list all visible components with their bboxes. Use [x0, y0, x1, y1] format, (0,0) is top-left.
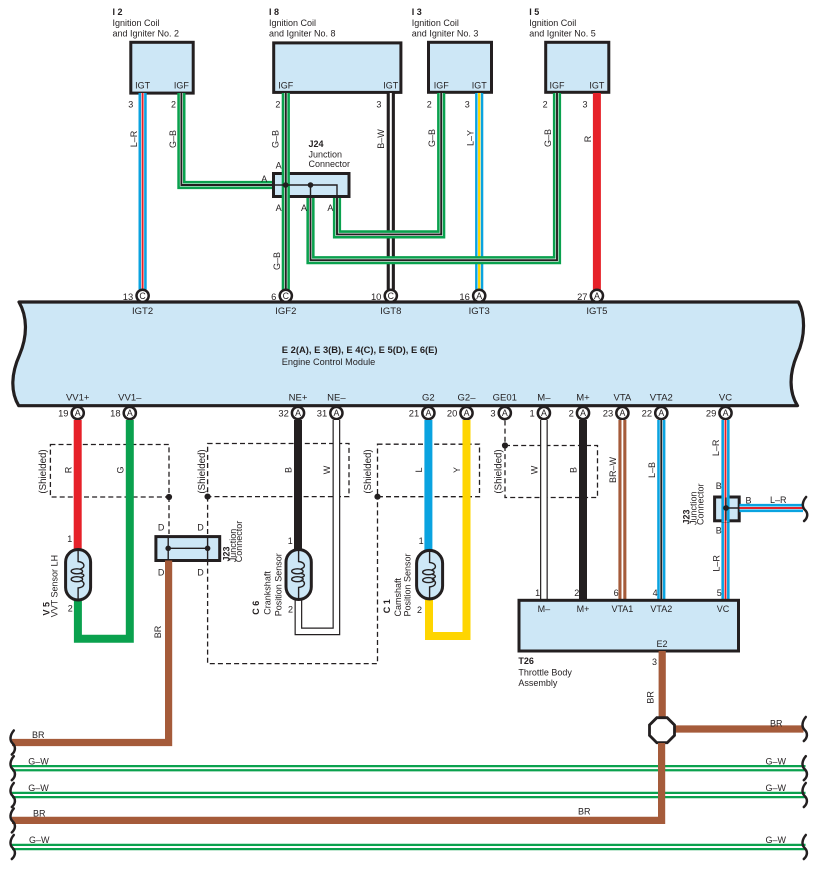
- svg-text:W: W: [530, 465, 540, 474]
- pin number 3 of I2 IGT: [128, 100, 139, 148]
- svg-text:VTA2: VTA2: [650, 604, 672, 614]
- node 32(A) NE+: [278, 407, 304, 419]
- svg-text:Position Sensor: Position Sensor: [403, 553, 413, 616]
- svg-text:3: 3: [652, 657, 657, 667]
- svg-text:IGT: IGT: [383, 81, 399, 91]
- svg-text:A: A: [476, 291, 482, 301]
- svg-text:IGT: IGT: [472, 81, 488, 91]
- svg-text:Connector: Connector: [309, 159, 351, 169]
- svg-text:and Igniter No. 3: and Igniter No. 3: [412, 29, 479, 39]
- svg-text:IGF2: IGF2: [275, 306, 296, 317]
- svg-text:13: 13: [123, 291, 133, 302]
- svg-text:G–B: G–B: [168, 130, 178, 148]
- svg-text:M+: M+: [577, 604, 590, 614]
- svg-text:A: A: [541, 408, 547, 418]
- svg-text:Ignition Coil: Ignition Coil: [412, 18, 459, 28]
- label BR right stub: [770, 718, 783, 728]
- svg-text:NE–: NE–: [327, 393, 346, 404]
- wire L: ECM G2 21 to C1 pin 1: [424, 420, 432, 550]
- node 3(A) GE01: [490, 407, 511, 419]
- svg-text:and Igniter No. 2: and Igniter No. 2: [113, 29, 180, 39]
- node 20(A) G2&#8211;: [447, 407, 473, 419]
- J23 internal dot: [682, 483, 787, 525]
- VVT sensor V5 (VVT Sensor LH): [42, 534, 91, 617]
- svg-text:VV1–: VV1–: [118, 393, 142, 404]
- svg-text:L–B: L–B: [647, 462, 657, 478]
- svg-text:VVT Sensor LH: VVT Sensor LH: [50, 555, 60, 617]
- wire W: ECM M- 1 to T26 pin 1: [540, 420, 548, 601]
- svg-text:B: B: [284, 467, 294, 473]
- ignition coil I3: [412, 7, 492, 92]
- svg-text:GE01: GE01: [493, 393, 517, 404]
- svg-text:Position Sensor: Position Sensor: [273, 553, 283, 616]
- throttle body assembly T26: [518, 588, 738, 688]
- svg-text:Junction: Junction: [309, 149, 343, 159]
- svg-text:19: 19: [58, 408, 68, 419]
- ECM top pin names: [132, 306, 607, 317]
- svg-text:E 2(A), E 3(B), E 4(C), E 5(D): E 2(A), E 3(B), E 4(C), E 5(D), E 6(E): [282, 344, 438, 355]
- labels G-W bus 3: [29, 835, 787, 845]
- node 6(C) IGF2: [271, 290, 292, 303]
- svg-text:(Shielded): (Shielded): [38, 449, 49, 493]
- svg-text:G: G: [116, 466, 126, 473]
- svg-text:IGT3: IGT3: [469, 306, 490, 317]
- svg-text:L–R: L–R: [711, 439, 721, 456]
- svg-text:Assembly: Assembly: [518, 678, 558, 688]
- svg-text:I 5: I 5: [529, 7, 539, 17]
- wire R: ECM VV1+ 19 to V5 pin 1: [74, 420, 82, 550]
- svg-text:1: 1: [535, 588, 540, 598]
- svg-text:G–W: G–W: [766, 835, 787, 845]
- label R: [63, 466, 73, 473]
- svg-text:29: 29: [706, 408, 716, 419]
- svg-text:Engine Control Module: Engine Control Module: [282, 357, 375, 367]
- svg-text:J24: J24: [309, 139, 324, 149]
- svg-text:G–W: G–W: [28, 783, 49, 793]
- svg-text:C: C: [283, 291, 290, 301]
- wire W: C6 pin 2 to ECM NE- 31: [298, 420, 336, 631]
- svg-text:D: D: [158, 523, 165, 533]
- svg-text:G2: G2: [422, 393, 435, 404]
- svg-text:L–R: L–R: [711, 555, 721, 572]
- svg-text:Throttle Body: Throttle Body: [518, 667, 572, 677]
- svg-text:A: A: [276, 203, 282, 213]
- label BR mid bus 2: [33, 807, 591, 819]
- wire B: ECM M+ 2 to T26 pin 2: [579, 420, 587, 601]
- wire G-W bus 1: [12, 765, 806, 771]
- ignition coil I5: [529, 7, 609, 92]
- svg-text:D: D: [158, 568, 165, 578]
- svg-text:G–W: G–W: [29, 835, 50, 845]
- svg-text:A: A: [619, 408, 625, 418]
- svg-text:BR–W: BR–W: [608, 457, 618, 484]
- svg-text:A: A: [502, 408, 508, 418]
- label L-R lower: [711, 525, 721, 571]
- svg-text:Camshaft: Camshaft: [393, 577, 403, 616]
- svg-text:5: 5: [717, 588, 722, 598]
- svg-text:6: 6: [614, 588, 619, 598]
- node 16(A) IGT3: [459, 290, 485, 303]
- svg-text:IGT5: IGT5: [586, 306, 607, 317]
- svg-text:A: A: [75, 408, 81, 418]
- pin number 3 of E2: [645, 657, 657, 704]
- node 1(A) M&#8211;: [529, 407, 550, 419]
- shield drain wire: GE01 to M shield: [504, 421, 506, 446]
- svg-text:A: A: [327, 203, 333, 213]
- svg-text:R: R: [583, 135, 593, 142]
- ignition coil I8: [269, 7, 401, 92]
- wire G-B: I2 IGF pin 2 to J24 pin A: [181, 93, 272, 185]
- svg-text:10: 10: [371, 291, 381, 302]
- svg-text:BR: BR: [33, 809, 46, 819]
- svg-text:A: A: [333, 408, 339, 418]
- svg-text:A: A: [261, 174, 267, 184]
- labels G-W bus 1: [28, 756, 786, 766]
- svg-text:27: 27: [577, 291, 587, 302]
- wire G: V5 pin 2 to ECM VV1- 18: [78, 420, 130, 639]
- svg-text:(Shielded): (Shielded): [363, 449, 374, 493]
- svg-text:L–R: L–R: [770, 495, 787, 505]
- svg-text:G2–: G2–: [458, 393, 477, 404]
- svg-text:IGF: IGF: [278, 81, 294, 91]
- ground splice junction node (octagon): [650, 718, 675, 743]
- svg-text:2: 2: [275, 100, 280, 110]
- svg-text:G–W: G–W: [766, 783, 787, 793]
- junction connector J23 (shield grounds): [156, 521, 244, 578]
- ignition coil I2: [113, 7, 194, 93]
- label BR-W: [608, 457, 618, 484]
- svg-text:and Igniter No. 8: and Igniter No. 8: [269, 29, 336, 39]
- svg-text:A: A: [295, 408, 301, 418]
- svg-text:Ignition Coil: Ignition Coil: [529, 18, 576, 28]
- svg-text:BR: BR: [578, 807, 591, 817]
- svg-text:VC: VC: [717, 604, 730, 614]
- svg-text:Ignition Coil: Ignition Coil: [269, 18, 316, 28]
- svg-text:2: 2: [574, 588, 579, 598]
- svg-text:2: 2: [417, 605, 422, 615]
- svg-text:2: 2: [569, 408, 574, 419]
- svg-text:IGF: IGF: [174, 81, 190, 91]
- svg-text:I 2: I 2: [113, 7, 123, 17]
- wire break tear at J23 stub: [803, 497, 807, 521]
- pin number 2 of I3 IGF: [427, 100, 437, 148]
- svg-text:VC: VC: [719, 393, 732, 404]
- pin number 2 of I8 IGF: [271, 100, 281, 149]
- label BR left bus 1: [32, 730, 45, 740]
- svg-text:3: 3: [465, 100, 470, 110]
- wire B: ECM NE+ 32 to C6 pin 1: [294, 420, 302, 550]
- svg-text:A: A: [594, 291, 600, 301]
- label B: [569, 467, 579, 473]
- svg-text:I 3: I 3: [412, 7, 422, 17]
- svg-text:BR: BR: [645, 691, 655, 704]
- svg-text:6: 6: [271, 291, 276, 302]
- svg-text:A: A: [658, 408, 664, 418]
- shield box around C1 wires (Shielded): [363, 444, 479, 500]
- svg-text:B: B: [716, 481, 722, 491]
- label G: [116, 466, 126, 473]
- pin number 2 of I5 IGF: [543, 100, 554, 148]
- node 13(C) IGT2: [123, 290, 149, 303]
- node 27(A) IGT5: [577, 290, 603, 303]
- svg-text:L: L: [414, 467, 424, 472]
- wire L-R inside J23: [721, 494, 729, 522]
- svg-text:1: 1: [529, 408, 534, 419]
- label Y: [452, 467, 462, 473]
- wire L-R: ECM VC 29 to J23: [721, 420, 729, 497]
- J24 internal bus and junction dots: [272, 182, 337, 198]
- wire break tears right edge: [802, 717, 806, 859]
- label BR vertical: [153, 625, 163, 638]
- svg-text:W: W: [322, 465, 332, 474]
- node 31(A) NE&#8211;: [317, 407, 343, 419]
- svg-text:B: B: [716, 525, 722, 535]
- wire Y: C1 pin 2 to ECM G2- 20: [429, 420, 467, 636]
- svg-text:E2: E2: [656, 639, 667, 649]
- label B: [284, 467, 294, 473]
- svg-text:BR: BR: [153, 625, 163, 638]
- svg-text:G–B: G–B: [271, 130, 281, 148]
- node 23(A) VTA: [603, 407, 629, 419]
- svg-text:4: 4: [653, 588, 658, 598]
- wire L-Y: I3 IGT pin 3 to ECM IGT3: [475, 93, 483, 290]
- svg-text:Y: Y: [452, 467, 462, 473]
- pin number 3 of I5 IGT: [582, 100, 593, 143]
- svg-text:L–Y: L–Y: [466, 130, 476, 146]
- svg-text:1: 1: [67, 534, 72, 544]
- svg-text:A: A: [464, 408, 470, 418]
- junction connector J24: [274, 139, 351, 197]
- wire G-B: I3 IGF pin 2 to J24 pin A: [337, 93, 441, 234]
- svg-text:G–B: G–B: [543, 129, 553, 147]
- svg-text:21: 21: [409, 408, 419, 419]
- svg-text:A: A: [723, 408, 729, 418]
- svg-text:VTA1: VTA1: [611, 604, 633, 614]
- svg-text:IGT2: IGT2: [132, 306, 153, 317]
- svg-text:A: A: [301, 203, 307, 213]
- svg-text:BR: BR: [770, 718, 783, 728]
- svg-text:C: C: [388, 291, 395, 301]
- svg-text:G–W: G–W: [766, 756, 787, 766]
- svg-text:B: B: [746, 496, 752, 506]
- label L-B: [647, 462, 657, 478]
- node 18(A) VV1&#8211;: [110, 407, 136, 419]
- shield drain wire: V5 shield to J23 pin D: [168, 497, 170, 534]
- svg-text:A: A: [276, 161, 282, 171]
- svg-text:I 8: I 8: [269, 7, 279, 17]
- wire BR: junction node to ground bus 2: [12, 743, 662, 820]
- svg-text:C 1: C 1: [382, 599, 392, 613]
- wire R: I5 IGT pin 3 to ECM IGT5: [593, 93, 601, 290]
- wire L-B: ECM VTA2 22 to T26 pin 4 VTA2: [657, 420, 665, 601]
- labels G-W bus 2: [28, 783, 786, 793]
- wire BR: J23 pin D to ground bus: [12, 561, 169, 743]
- svg-text:B: B: [569, 467, 579, 473]
- svg-text:20: 20: [447, 408, 457, 419]
- wire G-W bus 2: [12, 792, 806, 798]
- svg-text:A: A: [580, 408, 586, 418]
- svg-text:IGF: IGF: [434, 81, 450, 91]
- pin number 3 of I3 IGT: [465, 100, 476, 147]
- svg-text:G–W: G–W: [28, 756, 49, 766]
- svg-text:G–B: G–B: [427, 129, 437, 147]
- wire G-W bus 3: [12, 844, 806, 850]
- svg-text:3: 3: [490, 408, 495, 419]
- svg-text:C: C: [139, 291, 146, 301]
- label W: [322, 465, 332, 474]
- svg-text:G–B: G–B: [272, 252, 282, 270]
- crankshaft position sensor C6: [251, 536, 311, 616]
- svg-text:Crankshaft: Crankshaft: [263, 571, 273, 615]
- shield box around M-/M+ wires (Shielded): [494, 442, 598, 497]
- svg-text:M–: M–: [538, 604, 551, 614]
- svg-text:23: 23: [603, 408, 613, 419]
- svg-text:VTA2: VTA2: [650, 393, 673, 404]
- svg-text:R: R: [63, 466, 73, 473]
- wire L-R: J23 to T26 pin 5 VC: [721, 521, 729, 601]
- svg-text:B–W: B–W: [376, 129, 386, 149]
- svg-text:3: 3: [582, 100, 587, 110]
- svg-text:31: 31: [317, 408, 327, 419]
- svg-text:IGF: IGF: [550, 81, 566, 91]
- svg-text:A: A: [127, 408, 133, 418]
- svg-text:2: 2: [427, 100, 432, 110]
- svg-text:2: 2: [68, 603, 73, 613]
- wire L-R: I2 IGT pin 3 to ECM IGT2: [139, 93, 147, 290]
- svg-text:T26: T26: [518, 656, 534, 666]
- svg-text:(Shielded): (Shielded): [494, 449, 505, 493]
- wire L-R: J23 stub to right: [740, 504, 804, 512]
- shield drain wire: C6 shield through J23 to C1 shield: [208, 497, 378, 664]
- svg-text:IGT: IGT: [589, 81, 605, 91]
- shield box around V5 wires (Shielded): [38, 445, 172, 501]
- svg-text:(Shielded): (Shielded): [197, 449, 208, 493]
- svg-text:22: 22: [642, 408, 652, 419]
- svg-text:Connector: Connector: [234, 521, 244, 563]
- wire BR: T26 E2 pin 3 to junction node: [659, 651, 666, 718]
- svg-text:18: 18: [110, 408, 120, 419]
- ECM module E: E 2(A), E 3(B), E 4(C), E 5(D), E 6(E) Engine Control Module: [13, 302, 804, 406]
- svg-text:IGT: IGT: [135, 81, 151, 91]
- svg-text:VV1+: VV1+: [66, 393, 90, 404]
- svg-text:NE+: NE+: [289, 393, 308, 404]
- svg-text:32: 32: [278, 408, 288, 419]
- svg-text:Connector: Connector: [696, 483, 706, 525]
- shield box around C6 wires (Shielded): [197, 444, 349, 500]
- node 22(A) VTA2: [642, 407, 668, 419]
- node 21(A) G2: [409, 407, 435, 419]
- svg-text:L–R: L–R: [129, 130, 139, 147]
- svg-text:and Igniter No. 5: and Igniter No. 5: [529, 29, 596, 39]
- label G-B lower segment: [272, 252, 282, 270]
- label L-R: [711, 439, 722, 491]
- node 29(A) VC: [706, 407, 732, 419]
- svg-text:3: 3: [376, 100, 381, 110]
- node 10(C) IGT8: [371, 290, 397, 303]
- svg-text:D: D: [197, 568, 204, 578]
- svg-text:C 6: C 6: [251, 601, 261, 615]
- ECM bottom pin names: [66, 393, 732, 404]
- wire BR-W: ECM VTA 23 to T26 pin 6 VTA1: [618, 420, 626, 601]
- wire G-B: I5 IGF pin 2 to J24 pin A: [311, 93, 558, 260]
- wire B-W: I8 IGT pin 3 to ECM IGT8: [387, 93, 395, 290]
- node 19(A) VV1+: [58, 407, 84, 419]
- svg-text:1: 1: [419, 536, 424, 546]
- pin number 2 of I2 IGF: [168, 100, 178, 149]
- junction connector J23 (VC supply): [715, 497, 740, 521]
- label L: [414, 467, 424, 472]
- wire G-B: I8 IGF pin 2 through J24 to ECM IGF2: [282, 93, 290, 290]
- svg-text:1: 1: [288, 536, 293, 546]
- camshaft position sensor C1: [382, 536, 443, 617]
- svg-text:VTA: VTA: [614, 393, 632, 404]
- J24 pin labels A: [261, 161, 333, 214]
- svg-text:Ignition Coil: Ignition Coil: [113, 18, 160, 28]
- svg-text:2: 2: [288, 605, 293, 615]
- svg-text:3: 3: [128, 100, 133, 110]
- node 2(A) M+: [569, 407, 590, 419]
- svg-text:A: A: [425, 408, 431, 418]
- wire BR: junction node stub to right: [675, 725, 804, 732]
- label W: [530, 465, 540, 474]
- svg-text:BR: BR: [32, 730, 45, 740]
- svg-text:2: 2: [543, 100, 548, 110]
- svg-text:M+: M+: [576, 393, 590, 404]
- pin number 3 of I8 IGT: [376, 100, 386, 149]
- svg-text:16: 16: [459, 291, 469, 302]
- wire break tears left edge: [10, 731, 14, 860]
- svg-text:IGT8: IGT8: [380, 306, 401, 317]
- svg-text:M–: M–: [537, 393, 551, 404]
- svg-text:2: 2: [171, 100, 176, 110]
- svg-text:D: D: [197, 523, 204, 533]
